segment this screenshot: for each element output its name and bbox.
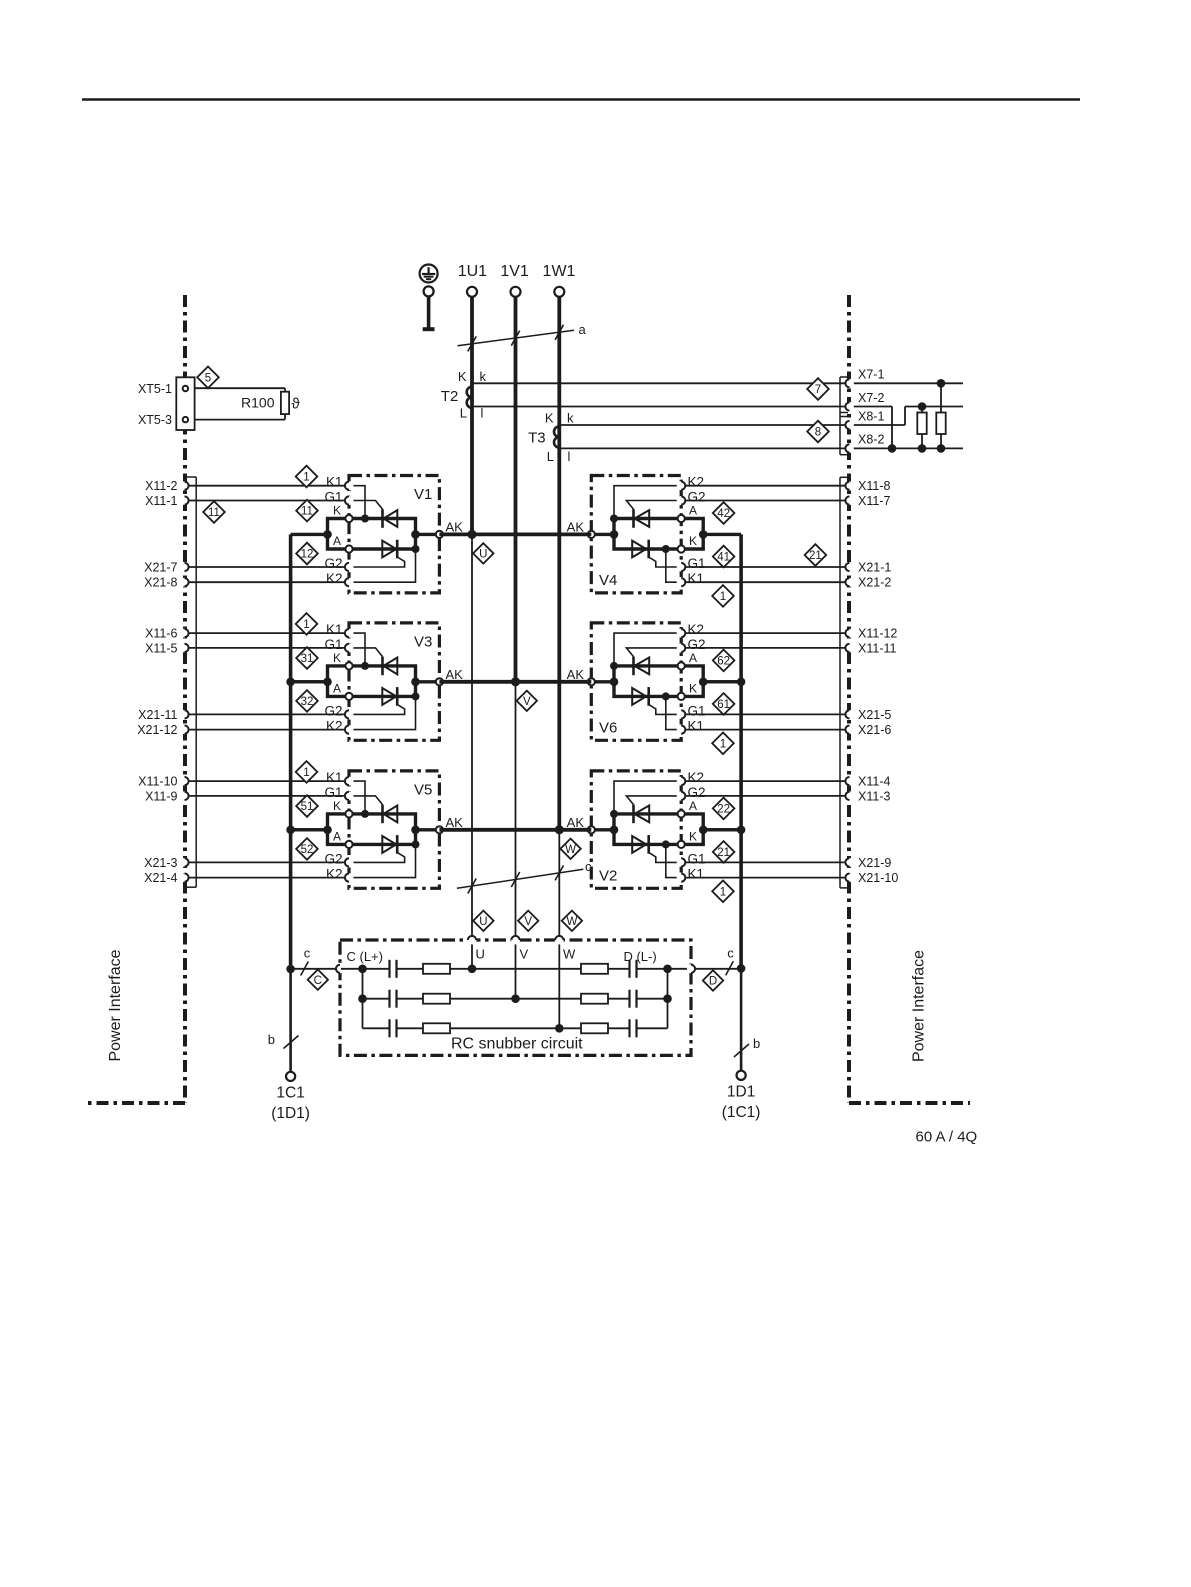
svg-text:K: K <box>545 411 554 426</box>
wire X11-9 to V5 G1 <box>189 795 345 797</box>
V2 thyristor 1 gate lead <box>626 796 680 805</box>
snubber branch W mid wire <box>450 1027 581 1029</box>
wire X7-1 burden <box>854 382 963 384</box>
snubber branch V right capacitor <box>608 998 630 1000</box>
left bus lower wire <box>289 969 292 1072</box>
diamond 62 <box>713 650 735 672</box>
svg-text:G1: G1 <box>324 785 342 800</box>
terminal X21-1 <box>845 563 854 572</box>
V3 terminal G1 <box>345 643 354 652</box>
terminal X21-9 <box>845 858 854 867</box>
V6 terminal G2 <box>677 643 686 652</box>
V4 external A-K strap <box>681 519 703 550</box>
output line W (wire) <box>558 830 560 936</box>
svg-text:7: 7 <box>815 384 821 396</box>
V3 thyristor 1 (upper) <box>381 657 384 676</box>
wire X21-8 to V1 K2 <box>189 581 345 583</box>
svg-text:K2: K2 <box>688 475 705 490</box>
V1 terminal K1 <box>345 481 354 490</box>
diamond 12 <box>296 543 318 565</box>
svg-text:X11-10: X11-10 <box>138 775 177 789</box>
diamond 7 <box>807 378 829 400</box>
V5 node K <box>345 810 352 817</box>
svg-text:11: 11 <box>208 507 220 519</box>
svg-text:X11-4: X11-4 <box>858 775 890 789</box>
wire X11-11 to V6 G2 <box>686 647 846 649</box>
V5 thyristor 2 gate lead <box>350 852 405 862</box>
V1 node AK <box>436 531 443 538</box>
right bus lower wire <box>740 968 743 1070</box>
diamond 22 <box>713 798 735 820</box>
svg-text:W: W <box>563 947 576 962</box>
svg-text:52: 52 <box>301 844 314 856</box>
svg-text:A: A <box>333 829 341 843</box>
wire X21-1 to V4 G1 <box>686 566 846 568</box>
current transformer T2 <box>467 387 472 408</box>
svg-text:60 A / 4Q: 60 A / 4Q <box>916 1129 978 1146</box>
wire X11-5 to V3 G1 <box>189 647 345 649</box>
svg-text:32: 32 <box>301 696 314 708</box>
V1 node K <box>345 515 352 522</box>
V4 node A <box>678 515 685 522</box>
V1 terminal K2 <box>345 578 354 587</box>
phase line 1W1 (wire) <box>557 297 561 830</box>
wire X11-4 to V2 K2 <box>686 780 846 782</box>
svg-text:Power Interface: Power Interface <box>107 949 124 1061</box>
svg-text:AK: AK <box>446 519 464 534</box>
terminal X21-8 <box>180 578 189 587</box>
svg-text:X21-1: X21-1 <box>858 561 891 575</box>
svg-text:1: 1 <box>720 886 726 898</box>
snubber D rail <box>667 969 669 1029</box>
svg-text:G1: G1 <box>324 637 342 652</box>
V5 external K-A strap <box>328 814 350 845</box>
break symbol c (right) <box>726 961 734 975</box>
V5 terminal K1 <box>345 777 354 786</box>
diamond 42 <box>713 502 735 524</box>
V5 K2 auxiliary wire <box>350 844 416 877</box>
V5 K1 auxiliary wire <box>350 781 365 814</box>
V4 K2 auxiliary wire <box>614 486 680 519</box>
wire XT5-3 to R100 <box>195 419 285 421</box>
terminal X11-7 <box>845 496 854 505</box>
wire snubber to D bus <box>695 968 741 970</box>
V4 terminal K1 <box>677 578 686 587</box>
right shield bracket <box>840 476 850 478</box>
T2 secondary wire k to X7-1 <box>472 382 845 384</box>
V5 terminal G2 <box>345 858 354 867</box>
V6 K1 auxiliary wire <box>666 696 680 729</box>
svg-text:12: 12 <box>301 549 314 561</box>
svg-text:K: K <box>689 829 697 843</box>
svg-text:U: U <box>479 916 487 928</box>
svg-text:(1C1): (1C1) <box>722 1104 761 1121</box>
snubber branch V left capacitor <box>363 998 390 1000</box>
V4 thyristor 1 gate lead <box>626 501 680 510</box>
V6 node K <box>678 693 685 700</box>
wire X21-9 to V2 G1 <box>686 861 846 863</box>
right DC bus D <box>739 534 743 968</box>
svg-text:W: W <box>565 844 576 856</box>
snubber terminal U <box>468 936 477 945</box>
group symbol a <box>458 330 575 346</box>
V2 thyristor 2 gate lead <box>649 852 681 862</box>
svg-text:41: 41 <box>717 552 730 564</box>
svg-text:A: A <box>689 504 697 518</box>
svg-text:1: 1 <box>720 738 726 750</box>
diamond 1 <box>712 881 734 903</box>
diamond 61 <box>713 693 735 715</box>
V6 external A-K strap <box>681 666 703 697</box>
wire X21-10 to V2 K1 <box>686 877 846 879</box>
snubber terminal W <box>555 936 564 945</box>
svg-text:X21-3: X21-3 <box>144 856 177 870</box>
snubber U stub <box>471 944 473 969</box>
resistor R100 <box>281 392 289 414</box>
snubber terminal D <box>687 964 696 973</box>
break symbol b (right) <box>734 1044 749 1057</box>
snubber W stub <box>558 944 560 1028</box>
terminal X8-2 <box>845 444 854 453</box>
V6 node AK <box>588 678 595 685</box>
diamond 11 (left) <box>203 501 225 523</box>
V2 AK output wire <box>591 828 614 831</box>
diamond 51 <box>296 795 318 817</box>
svg-text:c: c <box>585 859 592 874</box>
V1 external K-A strap <box>328 519 350 550</box>
svg-text:1W1: 1W1 <box>543 263 576 280</box>
wire X11-1 to V1 G1 <box>189 500 345 502</box>
thyristor module V3 box <box>349 623 439 740</box>
V5 thyristor 2 (lower) <box>382 836 396 853</box>
phase line 1U1 (wire) <box>470 297 474 535</box>
diamond W <box>560 839 580 859</box>
svg-text:21: 21 <box>809 550 822 562</box>
svg-text:K2: K2 <box>688 622 705 637</box>
thyristor module V2 box <box>591 771 681 888</box>
V5 strap to DC bus <box>291 828 328 831</box>
svg-text:X8-1: X8-1 <box>858 409 884 423</box>
diamond V <box>517 691 537 711</box>
V1 thyristor 1 (upper) <box>381 509 384 528</box>
V2 terminal G1 <box>677 858 686 867</box>
wire X21-4 to V5 K2 <box>189 877 345 879</box>
RC snubber circuit box <box>340 940 691 1055</box>
diamond U (output) <box>473 911 493 931</box>
diamond 8 <box>807 421 829 443</box>
svg-text:X11-12: X11-12 <box>858 627 897 641</box>
svg-text:G2: G2 <box>688 785 706 800</box>
V6 thyristor 1 gate lead <box>626 648 680 657</box>
terminal X11-8 <box>845 481 854 490</box>
V5 K bus (thick) <box>349 814 416 845</box>
snubber inner wires <box>341 968 363 970</box>
V5 terminal G1 <box>345 791 354 800</box>
svg-text:l: l <box>568 449 571 464</box>
diamond 32 <box>296 690 318 712</box>
svg-text:W: W <box>566 916 577 928</box>
wire X8-1 jumper <box>854 424 905 426</box>
terminal X11-1 <box>180 496 189 505</box>
terminal X11-12 <box>845 629 854 638</box>
svg-text:K2: K2 <box>326 719 343 734</box>
wire X8-2 burden <box>854 447 963 449</box>
V2 K1 auxiliary wire <box>666 844 680 877</box>
terminal X21-3 <box>180 858 189 867</box>
svg-text:G1: G1 <box>688 851 706 866</box>
V5 node A <box>345 841 352 848</box>
svg-text:k: k <box>567 411 574 426</box>
V4 thyristor 2 gate lead <box>649 557 681 567</box>
svg-text:V: V <box>523 696 531 708</box>
svg-text:V1: V1 <box>414 486 432 503</box>
V6 terminal G1 <box>677 710 686 719</box>
svg-text:C (L+): C (L+) <box>347 949 383 964</box>
V1 K1 auxiliary wire <box>350 486 365 519</box>
V1 strap to DC bus <box>291 533 328 536</box>
V6 A bus (thick) <box>614 666 681 697</box>
svg-text:K1: K1 <box>688 867 705 882</box>
svg-text:1: 1 <box>303 767 309 779</box>
V3 AK output wire <box>416 680 440 683</box>
terminal X21-6 <box>845 725 854 734</box>
terminal X7-2 <box>845 402 854 411</box>
V2 strap to DC bus <box>703 828 741 831</box>
svg-text:AK: AK <box>567 667 585 682</box>
break symbol c (left) <box>301 962 309 976</box>
V1 thyristor 2 (lower) <box>382 541 396 558</box>
snubber branch W right resistor <box>581 1023 608 1033</box>
svg-text:X7-2: X7-2 <box>858 391 884 405</box>
V6 terminal K2 <box>677 629 686 638</box>
diamond 11 <box>296 500 318 522</box>
svg-text:K1: K1 <box>688 571 705 586</box>
thyristor module V4 box <box>591 476 681 593</box>
V2 node K <box>678 841 685 848</box>
svg-text:1: 1 <box>303 619 309 631</box>
left bus branch row2 <box>291 680 328 683</box>
svg-text:V6: V6 <box>599 719 617 736</box>
svg-text:K: K <box>333 651 341 665</box>
wire X11-6 to V3 K1 <box>189 632 345 634</box>
svg-text:X21-11: X21-11 <box>138 708 177 722</box>
V4 thyristor 1 (upper) <box>632 509 635 528</box>
phase line 1V1 (wire) <box>514 297 518 682</box>
svg-text:A: A <box>333 534 341 548</box>
V3 terminal K2 <box>345 725 354 734</box>
svg-text:X8-2: X8-2 <box>858 433 884 447</box>
svg-text:K1: K1 <box>326 622 343 637</box>
wire X21-5 to V6 G1 <box>686 713 846 715</box>
V1 terminal G2 <box>345 563 354 572</box>
svg-text:b: b <box>753 1036 760 1051</box>
shield bracket X7/X8 <box>840 376 850 378</box>
diamond C <box>308 970 328 990</box>
T2 secondary wire l to X7-2 <box>472 406 845 408</box>
wire C bus to snubber <box>291 968 336 970</box>
svg-text:G1: G1 <box>688 703 706 718</box>
svg-text:L: L <box>547 449 554 464</box>
V4 node AK <box>588 531 595 538</box>
svg-text:b: b <box>268 1032 275 1047</box>
wire X21-6 to V6 K1 <box>686 729 846 731</box>
V3 strap to DC bus <box>291 680 328 683</box>
V3 terminal G2 <box>345 710 354 719</box>
snubber branch U left resistor <box>397 968 424 970</box>
svg-text:X21-9: X21-9 <box>858 856 891 870</box>
wire X11-2 to V1 K1 <box>189 485 345 487</box>
output line V (wire) <box>515 682 517 936</box>
svg-text:V: V <box>520 947 529 962</box>
V6 node A <box>678 662 685 669</box>
wire X11-3 to V2 G2 <box>686 795 846 797</box>
svg-text:k: k <box>480 369 487 384</box>
snubber branch U right capacitor <box>608 968 630 970</box>
V2 A bus (thick) <box>614 814 681 845</box>
V3 terminal K1 <box>345 629 354 638</box>
diamond U <box>473 543 493 563</box>
terminal X11-4 <box>845 777 854 786</box>
svg-text:X21-12: X21-12 <box>137 723 177 737</box>
V1 thyristor 2 gate lead <box>350 557 405 567</box>
V5 terminal K2 <box>345 873 354 882</box>
svg-text:L: L <box>460 406 467 421</box>
V3 node K <box>345 662 352 669</box>
svg-text:D (L-): D (L-) <box>623 949 656 964</box>
svg-text:K1: K1 <box>326 770 343 785</box>
AK bus row 1 <box>439 533 591 537</box>
wire X21-2 to V4 K1 <box>686 581 846 583</box>
wire X21-12 to V3 K2 <box>189 729 345 731</box>
svg-text:X11-6: X11-6 <box>145 627 177 641</box>
V3 thyristor 2 gate lead <box>350 704 405 714</box>
terminal X21-10 <box>845 873 854 882</box>
svg-text:V5: V5 <box>414 782 432 799</box>
diamond 41 <box>713 546 735 568</box>
terminal X21-4 <box>180 873 189 882</box>
V6 strap to DC bus <box>703 680 741 683</box>
V4 AK output wire <box>591 533 614 536</box>
V4 terminal G2 <box>677 496 686 505</box>
V4 thyristor 2 (lower) <box>632 541 646 558</box>
left shield bracket <box>184 476 196 478</box>
svg-text:G2: G2 <box>324 556 342 571</box>
svg-text:5: 5 <box>205 372 211 384</box>
V4 A bus (thick) <box>614 519 681 550</box>
T3 secondary wire l to X8-2 <box>559 447 845 449</box>
diamond 31 <box>296 647 318 669</box>
terminal X21-5 <box>845 710 854 719</box>
svg-text:X11-8: X11-8 <box>858 479 890 493</box>
V1 K bus (thick) <box>349 519 416 550</box>
svg-text:A: A <box>689 651 697 665</box>
svg-text:K1: K1 <box>688 719 705 734</box>
wire X11-12 to V6 K2 <box>686 632 846 634</box>
snubber branch V right resistor <box>581 994 608 1004</box>
terminal X11-3 <box>845 791 854 800</box>
svg-text:XT5-3: XT5-3 <box>138 413 172 427</box>
svg-text:1D1: 1D1 <box>727 1084 755 1101</box>
svg-text:X11-9: X11-9 <box>145 789 177 803</box>
V3 K2 auxiliary wire <box>350 696 416 729</box>
V4 node K <box>678 545 685 552</box>
svg-text:T3: T3 <box>528 430 546 447</box>
right bus branch row2 <box>703 680 741 683</box>
thyristor module V6 box <box>591 623 681 740</box>
left bus branch row3 <box>291 828 328 831</box>
V3 K1 auxiliary wire <box>350 633 365 666</box>
svg-text:K2: K2 <box>326 867 343 882</box>
svg-text:8: 8 <box>815 427 821 439</box>
svg-text:X21-7: X21-7 <box>144 561 177 575</box>
right Power Interface boundary (dash-dot) <box>847 295 851 1103</box>
svg-text:K: K <box>333 504 341 518</box>
svg-text:Power Interface: Power Interface <box>911 950 928 1062</box>
earth bar <box>423 327 435 331</box>
thyristor module V5 box <box>349 771 439 888</box>
right bus branch row3 <box>703 828 741 831</box>
terminal 1C1 <box>286 1072 295 1081</box>
svg-text:AK: AK <box>446 815 464 830</box>
V6 thyristor 2 (lower) <box>632 688 646 705</box>
svg-text:61: 61 <box>717 699 730 711</box>
snubber branch V left resistor <box>397 998 424 1000</box>
wire X7-2 jumper <box>854 406 892 408</box>
svg-text:G2: G2 <box>688 637 706 652</box>
svg-text:l: l <box>481 406 484 421</box>
V3 K bus (thick) <box>349 666 416 697</box>
V1 AK output wire <box>416 533 440 536</box>
terminal 1D1 <box>737 1071 746 1080</box>
wire X11-7 to V4 G2 <box>686 500 846 502</box>
svg-text:11: 11 <box>301 506 313 518</box>
V6 terminal K1 <box>677 725 686 734</box>
svg-text:A: A <box>333 681 341 695</box>
AK bus row 3 <box>439 828 591 832</box>
protective earth symbol <box>420 265 438 283</box>
burden resistor R2 <box>940 383 942 412</box>
diamond 1 <box>712 585 734 607</box>
snubber branch U mid wire <box>450 968 581 970</box>
earth terminal <box>424 286 434 296</box>
V5 AK output wire <box>416 828 440 831</box>
svg-text:1V1: 1V1 <box>500 263 529 280</box>
svg-text:22: 22 <box>717 804 730 816</box>
earth conductor wire <box>427 296 431 329</box>
svg-text:C: C <box>314 975 322 987</box>
svg-text:K: K <box>458 369 467 384</box>
V1 node A <box>345 545 352 552</box>
svg-text:X7-1: X7-1 <box>858 368 884 382</box>
svg-text:42: 42 <box>717 508 730 520</box>
thyristor module V1 box <box>349 476 439 593</box>
svg-text:K1: K1 <box>326 475 343 490</box>
svg-text:1: 1 <box>303 472 309 484</box>
diamond 5 <box>197 367 219 389</box>
terminal X11-5 <box>180 643 189 652</box>
terminal 1U1 <box>467 287 477 297</box>
svg-text:X11-5: X11-5 <box>145 641 177 655</box>
svg-text:51: 51 <box>301 801 314 813</box>
svg-text:X11-3: X11-3 <box>858 789 890 803</box>
svg-text:T2: T2 <box>441 388 459 405</box>
snubber branch W left capacitor <box>363 1027 390 1029</box>
V6 thyristor 2 gate lead <box>649 704 681 714</box>
V2 K2 auxiliary wire <box>614 781 680 814</box>
V1 terminal G1 <box>345 496 354 505</box>
wire X11-8 to V4 K2 <box>686 485 846 487</box>
svg-text:G1: G1 <box>688 556 706 571</box>
